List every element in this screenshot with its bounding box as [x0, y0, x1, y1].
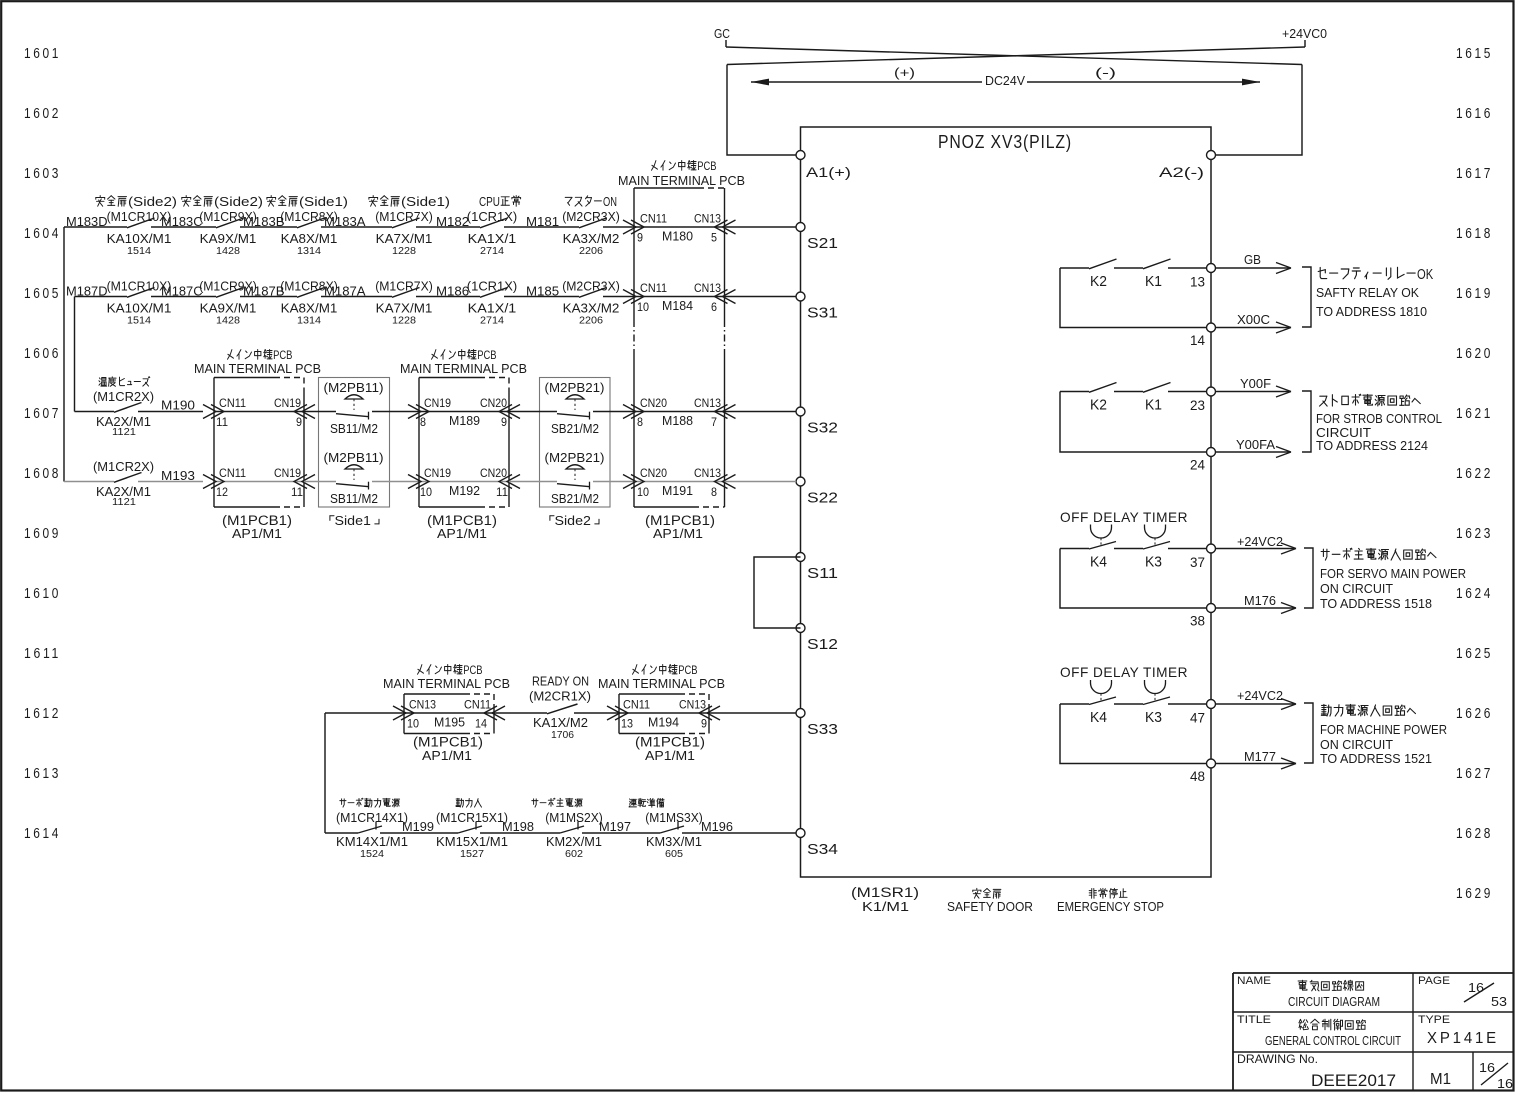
contact K1 — [1143, 259, 1171, 269]
svg-text:9: 9 — [296, 415, 302, 429]
wire left vertical 1605 to 1607 — [74, 297, 76, 412]
svg-text:PCB: PCB — [678, 665, 698, 677]
svg-text:16: 16 — [1468, 980, 1484, 995]
svg-text:CN11: CN11 — [640, 281, 667, 295]
svg-text:AP1/M1: AP1/M1 — [653, 526, 703, 541]
svg-text:1615: 1615 — [1456, 46, 1493, 62]
svg-text:(M2PB11): (M2PB11) — [324, 380, 384, 395]
svg-text:M184: M184 — [662, 298, 693, 313]
svg-text:M183C: M183C — [161, 214, 203, 229]
wire boxC row1607 — [419, 411, 509, 413]
svg-text:SAFTY RELAY OK: SAFTY RELAY OK — [1316, 285, 1419, 300]
svg-text:Y00FA: Y00FA — [1236, 438, 1276, 452]
arrow +24VC2 output upper — [1215, 548, 1295, 550]
svg-text:23: 23 — [1190, 398, 1205, 413]
svg-text:MAIN TERMINAL PCB: MAIN TERMINAL PCB — [618, 174, 745, 188]
arrow M176 output — [1215, 607, 1295, 609]
svg-text:1228: 1228 — [392, 246, 416, 257]
svg-text:KA7X/M1: KA7X/M1 — [376, 301, 433, 316]
svg-text:1627: 1627 — [1456, 766, 1493, 782]
svg-text:(M1CR2X): (M1CR2X) — [93, 459, 154, 474]
connector box G (M1PCB1) — [619, 693, 679, 695]
svg-text:K1/M1: K1/M1 — [862, 899, 909, 914]
terminal S34 — [796, 829, 805, 838]
svg-text:GENERAL CONTROL CIRCUIT: GENERAL CONTROL CIRCUIT — [1265, 1034, 1401, 1048]
svg-text:1428: 1428 — [216, 316, 240, 327]
bracket servo note — [1304, 548, 1313, 608]
label Side1 — [330, 513, 379, 528]
svg-text:PCB: PCB — [477, 350, 497, 362]
svg-text:48: 48 — [1190, 769, 1205, 784]
svg-text:XP141E: XP141E — [1427, 1030, 1499, 1047]
label title main terminal PCB box F — [418, 665, 483, 678]
contact K1 — [1143, 383, 1171, 393]
svg-text:6: 6 — [711, 300, 717, 314]
svg-text:(M1CR2X): (M1CR2X) — [93, 389, 154, 404]
wire +24VC0 to A1 diagonal — [727, 47, 1305, 65]
svg-text:X00C: X00C — [1237, 313, 1270, 327]
svg-text:KA1X/1: KA1X/1 — [468, 301, 517, 316]
svg-text:OFF DELAY TIMER: OFF DELAY TIMER — [1060, 509, 1188, 525]
svg-text:CN20: CN20 — [640, 396, 667, 410]
svg-text:CN20: CN20 — [480, 466, 507, 480]
svg-text:KM3X/M1: KM3X/M1 — [646, 834, 702, 849]
svg-text:M180: M180 — [662, 229, 693, 244]
svg-text:PAGE: PAGE — [1418, 975, 1450, 987]
node pin 13 — [1207, 264, 1216, 273]
label サーボ主電源 — [532, 798, 583, 807]
svg-text:ON CIRCUIT: ON CIRCUIT — [1320, 581, 1393, 596]
svg-text:S31: S31 — [807, 305, 838, 322]
svg-text:10: 10 — [420, 485, 432, 499]
arrow GB output — [1215, 267, 1290, 269]
svg-text:MAIN TERMINAL PCB: MAIN TERMINAL PCB — [400, 362, 527, 376]
terminal A2(-) — [1207, 151, 1216, 160]
wire left vertical to A1 — [727, 65, 796, 156]
svg-text:M187A: M187A — [324, 284, 366, 299]
svg-text:1613: 1613 — [24, 766, 61, 782]
svg-text:TO ADDRESS 2124: TO ADDRESS 2124 — [1316, 438, 1428, 453]
svg-text:(M1SR1): (M1SR1) — [851, 885, 919, 900]
svg-text:M195: M195 — [434, 715, 465, 730]
svg-text:38: 38 — [1190, 614, 1205, 629]
svg-text:KA9X/M1: KA9X/M1 — [200, 301, 257, 316]
svg-text:S22: S22 — [807, 490, 838, 507]
timer contact K3 — [1143, 542, 1170, 550]
svg-text:2714: 2714 — [480, 316, 504, 327]
wire GC to A2 diagonal — [726, 47, 1302, 65]
svg-text:M181: M181 — [526, 214, 559, 229]
title japanese — [1299, 1019, 1366, 1030]
svg-text:1314: 1314 — [297, 246, 321, 257]
contact KA8X/M1 row1604 — [297, 218, 325, 228]
wire boxG row — [618, 712, 709, 714]
connector box F (M1PCB1) — [404, 693, 464, 695]
svg-text:CN19: CN19 — [274, 466, 301, 480]
svg-text:1121: 1121 — [112, 427, 136, 438]
svg-text:KM15X1/M1: KM15X1/M1 — [436, 834, 508, 849]
label CPU正常 — [479, 195, 521, 209]
pushbutton SB11/M2 row1607 — [304, 411, 336, 413]
wire boxF row — [404, 712, 494, 714]
svg-text:AP1/M1: AP1/M1 — [437, 526, 487, 541]
svg-text:1629: 1629 — [1456, 886, 1493, 902]
svg-text:1228: 1228 — [392, 316, 416, 327]
svg-text:1616: 1616 — [1456, 106, 1493, 122]
svg-text:DRAWING No.: DRAWING No. — [1237, 1054, 1318, 1066]
contact KA9X/M1 row1605 — [216, 288, 244, 298]
terminal S21 — [796, 223, 805, 232]
title name japanese — [1298, 980, 1364, 991]
svg-text:KM2X/M1: KM2X/M1 — [546, 834, 602, 849]
svg-text:1602: 1602 — [24, 106, 61, 122]
svg-text:(Side2): (Side2) — [128, 195, 177, 209]
pushbutton box SB21 Side2 — [540, 378, 611, 508]
arrow Y00FA output — [1215, 451, 1290, 453]
svg-text:CN13: CN13 — [694, 281, 721, 295]
svg-text:2714: 2714 — [480, 246, 504, 257]
svg-text:M187C: M187C — [161, 284, 203, 299]
label safety door — [973, 888, 1001, 898]
svg-text:1611: 1611 — [24, 646, 61, 662]
svg-text:CN13: CN13 — [409, 698, 436, 712]
svg-text:AP1/M1: AP1/M1 — [422, 748, 472, 763]
terminal S31 — [796, 292, 805, 301]
svg-text:M183A: M183A — [324, 214, 366, 229]
contact KA10X/M1 row1604 — [127, 218, 155, 228]
label 安全扉(Side1) — [267, 195, 348, 209]
svg-text:KA9X/M1: KA9X/M1 — [200, 231, 257, 246]
connector box AP1/M1 mid (M1PCB1) — [419, 377, 479, 379]
svg-text:CN19: CN19 — [274, 396, 301, 410]
svg-text:CN13: CN13 — [679, 698, 706, 712]
svg-text:PCB: PCB — [463, 665, 483, 677]
svg-text:S21: S21 — [807, 235, 838, 252]
svg-text:S33: S33 — [807, 721, 838, 738]
svg-text:37: 37 — [1190, 555, 1205, 570]
wire boxG to node S33 — [709, 712, 796, 714]
svg-text:(Side1): (Side1) — [401, 195, 450, 209]
svg-text:DEEE2017: DEEE2017 — [1311, 1072, 1396, 1090]
svg-text:Y00F: Y00F — [1240, 377, 1271, 391]
svg-text:(M2CR1X): (M2CR1X) — [529, 689, 591, 704]
svg-text:SB21/M2: SB21/M2 — [551, 491, 599, 506]
svg-text:11: 11 — [291, 485, 303, 499]
contactor contact KM3X/M1 — [660, 826, 684, 833]
svg-text:10: 10 — [637, 485, 649, 499]
svg-text:DC24V: DC24V — [985, 74, 1026, 88]
bracket machine note — [1304, 703, 1313, 763]
svg-text:13: 13 — [621, 717, 633, 731]
pushbutton SB21/M2 row1608 — [509, 481, 557, 483]
svg-text:K4: K4 — [1090, 710, 1107, 726]
svg-text:5: 5 — [711, 231, 717, 245]
wire contact block left side — [1060, 704, 1211, 764]
svg-text:K1: K1 — [1145, 398, 1162, 414]
svg-text:1603: 1603 — [24, 166, 61, 182]
svg-text:1624: 1624 — [1456, 586, 1493, 602]
row numbers right 1615-1629 — [1456, 46, 1493, 902]
svg-text:1617: 1617 — [1456, 166, 1493, 182]
svg-text:(M1CR7X): (M1CR7X) — [375, 279, 433, 294]
wire row 1612 from vertical to box F — [325, 712, 404, 714]
svg-text:KA8X/M1: KA8X/M1 — [281, 231, 338, 246]
svg-text:KA7X/M1: KA7X/M1 — [376, 231, 433, 246]
node pin 47 — [1207, 700, 1216, 709]
svg-text:A1(+): A1(+) — [806, 165, 851, 180]
svg-text:FOR SERVO MAIN POWER: FOR SERVO MAIN POWER — [1320, 566, 1466, 581]
pushbutton SB21/M2 row1607 — [509, 411, 557, 413]
note safety relay OK japanese — [1318, 267, 1433, 283]
svg-text:M198: M198 — [502, 819, 534, 834]
node pin 38 — [1207, 604, 1216, 613]
svg-text:(M1CR7X): (M1CR7X) — [375, 209, 433, 224]
note strobe circuit japanese — [1320, 394, 1421, 406]
terminal S33 — [796, 709, 805, 718]
safety relay PNOZ XV3 box outline — [801, 127, 1212, 877]
label 動力入 — [456, 798, 482, 807]
contact KA3X/M2 row1604 — [579, 218, 607, 228]
svg-text:TYPE: TYPE — [1418, 1014, 1450, 1026]
svg-text:CN20: CN20 — [480, 396, 507, 410]
wire boxE row M180 — [634, 226, 725, 228]
contact K2 — [1089, 383, 1117, 393]
wire contact block top line — [1060, 391, 1089, 393]
wire M188 to node — [725, 411, 797, 413]
svg-text:TO ADDRESS 1521: TO ADDRESS 1521 — [1320, 751, 1432, 766]
wire contact block top line — [1060, 548, 1089, 550]
jumper link S11-S12 — [754, 557, 801, 628]
contact KA7X/M1 row1605 — [392, 288, 420, 298]
note servo main power japanese — [1321, 548, 1436, 560]
svg-text:S12: S12 — [807, 636, 838, 653]
svg-text:M199: M199 — [402, 819, 434, 834]
svg-text:K2: K2 — [1090, 398, 1107, 414]
svg-text:(M1CR15X1): (M1CR15X1) — [436, 810, 508, 825]
contact KA1X/1 row1605 — [480, 288, 508, 298]
svg-text:1605: 1605 — [24, 286, 61, 302]
node pin 24 — [1207, 448, 1216, 457]
svg-text:SB21/M2: SB21/M2 — [551, 421, 599, 436]
svg-text:M182: M182 — [436, 214, 469, 229]
svg-text:K3: K3 — [1145, 710, 1162, 726]
svg-text:9: 9 — [637, 231, 643, 245]
svg-text:(Side1): (Side1) — [299, 195, 348, 209]
svg-text:1610: 1610 — [24, 586, 61, 602]
contactor contact KM14X1/M1 — [358, 826, 382, 833]
svg-text:KA10X/M1: KA10X/M1 — [107, 231, 172, 246]
timer contact K3 — [1143, 697, 1170, 705]
svg-text:READY ON: READY ON — [532, 675, 589, 689]
svg-text:Side2: Side2 — [555, 513, 591, 528]
svg-text:CN13: CN13 — [694, 466, 721, 480]
terminal S22 — [796, 477, 805, 486]
svg-text:(M1MS2X): (M1MS2X) — [545, 810, 603, 825]
svg-text:KA10X/M1: KA10X/M1 — [107, 301, 172, 316]
chevrons boxE M188 — [623, 405, 636, 419]
label 安全扉(Side2) — [182, 195, 263, 209]
svg-text:M189: M189 — [449, 413, 480, 428]
title block outline — [1233, 972, 1514, 974]
svg-text:1706: 1706 — [551, 730, 574, 741]
bracket safety relay note — [1302, 267, 1311, 327]
contact KA1X/M2 ready-on — [494, 712, 547, 714]
node pin 48 — [1207, 759, 1216, 768]
contact KA2X/M1 row1608 — [64, 481, 114, 483]
wire row 1604 S21 chain — [64, 226, 127, 228]
svg-text:PCB: PCB — [697, 161, 717, 173]
svg-text:KM14X1/M1: KM14X1/M1 — [336, 834, 408, 849]
svg-text:1607: 1607 — [24, 406, 61, 422]
svg-text:14: 14 — [1190, 333, 1205, 348]
svg-text:2206: 2206 — [579, 246, 603, 257]
wire contact block left side — [1060, 392, 1211, 453]
svg-text:SB11/M2: SB11/M2 — [330, 421, 378, 436]
wire boxE row M191 — [634, 481, 725, 483]
svg-text:CN11: CN11 — [219, 466, 246, 480]
svg-text:1428: 1428 — [216, 246, 240, 257]
svg-text:16: 16 — [1479, 1061, 1495, 1075]
svg-text:1614: 1614 — [24, 826, 61, 842]
terminal S11 — [796, 553, 805, 562]
svg-text:11: 11 — [216, 415, 228, 429]
svg-text:1623: 1623 — [1456, 526, 1493, 542]
svg-text:8: 8 — [711, 485, 717, 499]
svg-text:CN11: CN11 — [464, 698, 491, 712]
pushbutton SB11/M2 row1608 — [304, 481, 336, 483]
timer contact K4 — [1089, 542, 1116, 550]
svg-text:KA8X/M1: KA8X/M1 — [281, 301, 338, 316]
wire contact block left side — [1060, 549, 1211, 609]
chevrons boxC row1607 — [408, 405, 421, 419]
svg-text:KA1X/1: KA1X/1 — [468, 231, 517, 246]
contact KA3X/M2 row1605 — [579, 288, 607, 298]
svg-text:602: 602 — [565, 849, 583, 860]
svg-text:(1CR1X): (1CR1X) — [467, 279, 517, 294]
label Side2 — [550, 513, 599, 528]
label title main terminal PCB box A — [228, 350, 293, 363]
svg-text:M1: M1 — [1430, 1071, 1451, 1088]
svg-text:7: 7 — [711, 415, 717, 429]
svg-text:(Side2): (Side2) — [214, 195, 263, 209]
svg-text:605: 605 — [665, 849, 683, 860]
svg-text:1618: 1618 — [1456, 226, 1493, 242]
label emergency stop — [1089, 888, 1127, 898]
label 安全扉(Side2) — [96, 195, 177, 209]
wire row 1605 S31 chain — [75, 296, 128, 298]
wire +24VC0 drop — [1304, 40, 1306, 47]
svg-text:1619: 1619 — [1456, 286, 1493, 302]
wire boxE row M188 — [634, 411, 725, 413]
svg-text:1622: 1622 — [1456, 466, 1493, 482]
svg-text:1524: 1524 — [360, 849, 384, 860]
svg-text:ON CIRCUIT: ON CIRCUIT — [1320, 737, 1393, 752]
svg-text:(M1MS3X): (M1MS3X) — [645, 810, 703, 825]
svg-text:1527: 1527 — [460, 849, 484, 860]
svg-text:EMERGENCY STOP: EMERGENCY STOP — [1057, 899, 1164, 914]
DC24V dimension arrow — [751, 81, 982, 83]
svg-text:(M2PB21): (M2PB21) — [545, 450, 605, 465]
contact KA7X/M1 row1604 — [392, 218, 420, 228]
svg-text:M197: M197 — [599, 819, 631, 834]
svg-text:1514: 1514 — [127, 246, 151, 257]
svg-text:1609: 1609 — [24, 526, 61, 542]
terminal S12 — [796, 624, 805, 633]
label title main terminal PCB box E — [652, 161, 717, 174]
chevrons boxA row1608 — [203, 475, 216, 489]
label title main terminal PCB box C — [432, 350, 497, 363]
contact KA1X/1 row1604 — [480, 218, 508, 228]
connector box AP1/M1 left (M1PCB1) — [214, 377, 274, 379]
svg-text:M183B: M183B — [243, 214, 285, 229]
label サーボ動力電源 — [340, 798, 400, 807]
chevrons boxE M191 — [623, 475, 636, 489]
terminal S32 — [796, 407, 805, 416]
svg-text:CN19: CN19 — [424, 396, 451, 410]
svg-text:M185: M185 — [526, 284, 559, 299]
svg-text:1621: 1621 — [1456, 406, 1493, 422]
svg-text:S34: S34 — [807, 841, 838, 858]
svg-text:CN20: CN20 — [640, 466, 667, 480]
label fuse japanese — [99, 377, 150, 387]
svg-text:11: 11 — [496, 485, 508, 499]
wire left vertical 1604 to 1608 — [63, 227, 65, 482]
svg-text:GB: GB — [1244, 253, 1261, 267]
svg-text:KA3X/M2: KA3X/M2 — [563, 231, 620, 246]
svg-text:M191: M191 — [662, 483, 693, 498]
svg-text:1620: 1620 — [1456, 346, 1493, 362]
chevrons boxA row1607 — [203, 405, 216, 419]
wire contact block top line — [1060, 267, 1089, 269]
label title main terminal PCB box G — [633, 665, 698, 678]
contact KA10X/M1 row1605 — [127, 288, 155, 298]
chevrons boxF — [393, 706, 406, 720]
wire M180 to node — [725, 226, 797, 228]
svg-text:GC: GC — [714, 26, 730, 41]
svg-text:1606: 1606 — [24, 346, 61, 362]
node pin 14 — [1207, 323, 1216, 332]
svg-text:M196: M196 — [701, 819, 733, 834]
svg-text:K4: K4 — [1090, 555, 1107, 571]
svg-text:1514: 1514 — [127, 316, 151, 327]
chevrons boxE M184 — [623, 290, 636, 304]
svg-text:M187B: M187B — [243, 284, 285, 299]
svg-text:M176: M176 — [1244, 594, 1276, 608]
svg-text:47: 47 — [1190, 711, 1205, 726]
svg-text:+24VC2: +24VC2 — [1237, 535, 1283, 549]
svg-text:M190: M190 — [161, 398, 195, 413]
svg-text:S32: S32 — [807, 420, 838, 437]
svg-text:+24VC2: +24VC2 — [1237, 689, 1283, 703]
chevrons boxC row1608 — [408, 475, 421, 489]
arrow M177 output — [1215, 763, 1295, 765]
wire contact block top line — [1060, 703, 1089, 705]
svg-text:CN11: CN11 — [623, 698, 650, 712]
svg-text:CPU: CPU — [479, 195, 500, 209]
svg-text:CN19: CN19 — [424, 466, 451, 480]
svg-text:9: 9 — [501, 415, 507, 429]
svg-text:AP1/M1: AP1/M1 — [232, 526, 282, 541]
svg-text:14: 14 — [475, 717, 487, 731]
wire M191 to node — [725, 481, 797, 483]
svg-text:CN13: CN13 — [694, 396, 721, 410]
svg-text:KA3X/M2: KA3X/M2 — [563, 301, 620, 316]
label 運転準備 — [629, 798, 664, 807]
svg-text:16: 16 — [1497, 1077, 1513, 1091]
wire M184 to node — [725, 296, 797, 298]
svg-text:(M2CR3X): (M2CR3X) — [562, 209, 620, 224]
wire boxA row1608 — [214, 481, 304, 483]
